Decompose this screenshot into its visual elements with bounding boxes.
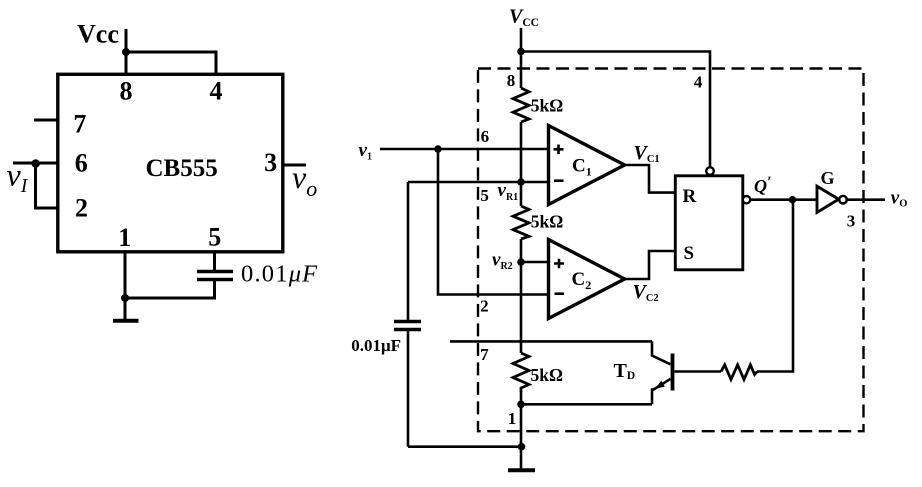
svg-text:G: G bbox=[820, 168, 834, 188]
svg-text:0.01μF: 0.01μF bbox=[351, 336, 401, 355]
wire C1 output to R input bbox=[625, 165, 676, 193]
svg-text:8: 8 bbox=[507, 71, 516, 90]
reset bubble on latch top bbox=[706, 167, 714, 175]
node ground junction bbox=[518, 443, 526, 451]
comparator C1 bbox=[549, 126, 625, 205]
svg-text:5: 5 bbox=[480, 186, 489, 205]
wire pin 7 discharge line to TD collector bbox=[450, 340, 652, 343]
ground (left circuit) bbox=[113, 298, 139, 321]
IC package CB555 box bbox=[58, 74, 283, 252]
Q' output bubble bbox=[743, 196, 750, 203]
svg-text:6: 6 bbox=[481, 127, 490, 146]
wire VCC to pin4 reset, down to latch bubble bbox=[521, 52, 710, 168]
node VCC junction bbox=[517, 48, 525, 56]
wire Q' to inverter G bbox=[750, 198, 817, 201]
comparator C2 bbox=[549, 240, 625, 319]
capacitor 0.01uF plates bbox=[197, 272, 233, 280]
wire chain R3 to ground bbox=[520, 392, 523, 447]
inverter G bbox=[817, 186, 847, 212]
wire Vcc lead to pin 8 bbox=[125, 29, 128, 74]
transistor TD bbox=[652, 341, 673, 404]
svg-text:4: 4 bbox=[210, 77, 223, 106]
wire C2 output to S input bbox=[625, 251, 676, 279]
svg-text:5kΩ: 5kΩ bbox=[531, 212, 564, 232]
svg-text:0.01μF: 0.01μF bbox=[241, 261, 318, 288]
resistor R3 5k bbox=[513, 353, 529, 392]
svg-text:R: R bbox=[683, 186, 697, 207]
wire TD base bbox=[675, 370, 722, 373]
svg-text:2: 2 bbox=[480, 297, 489, 316]
wire TD emitter to chain bottom bbox=[521, 403, 652, 406]
pin 6 stub bbox=[13, 162, 58, 165]
svg-text:7: 7 bbox=[73, 110, 86, 139]
svg-text:CB555: CB555 bbox=[145, 155, 217, 182]
svg-text:3: 3 bbox=[264, 148, 277, 177]
dashed IC boundary box bbox=[478, 69, 864, 432]
wire v1 to C1 + input bbox=[380, 148, 549, 151]
wire bottom return to ground node bbox=[408, 445, 521, 448]
capacitor 0.01uF (right circuit) bbox=[394, 182, 421, 447]
svg-text:Vcc: Vcc bbox=[77, 20, 119, 49]
pin 3 stub bbox=[283, 164, 306, 167]
wire chain R1 to R2 bbox=[520, 122, 523, 206]
pin 7 stub bbox=[34, 119, 58, 122]
resistor R1 5k bbox=[513, 88, 529, 122]
wire base resistor to Q' node bbox=[757, 200, 793, 372]
node vR2 bbox=[517, 258, 525, 266]
wire vR1 to C1 - input and to external cap bbox=[408, 181, 549, 184]
svg-text:8: 8 bbox=[120, 77, 133, 106]
svg-text:6: 6 bbox=[75, 149, 88, 178]
svg-text:1: 1 bbox=[118, 223, 131, 252]
node vR1 bbox=[517, 178, 525, 186]
resistor base Rb bbox=[721, 365, 757, 380]
wire chain R2 to R3 bbox=[520, 239, 523, 353]
node Vcc junction bbox=[122, 48, 130, 56]
svg-text:1: 1 bbox=[508, 409, 517, 428]
svg-text:7: 7 bbox=[480, 345, 489, 364]
ground (right circuit) bbox=[508, 447, 535, 471]
node pin1/cap junction bbox=[121, 294, 129, 302]
svg-text:5kΩ: 5kΩ bbox=[531, 365, 564, 385]
svg-text:3: 3 bbox=[847, 212, 856, 231]
svg-text:5kΩ: 5kΩ bbox=[531, 96, 564, 116]
node v1 junction bbox=[434, 145, 442, 153]
svg-text:S: S bbox=[684, 243, 695, 264]
svg-text:2: 2 bbox=[75, 194, 88, 223]
wire VCC lead bbox=[520, 28, 523, 88]
wire Vcc to pin 4 bbox=[126, 52, 216, 74]
svg-text:5: 5 bbox=[208, 223, 221, 252]
wire pin 5 to capacitor bbox=[213, 251, 216, 271]
wire v1 down to pin2 level bbox=[438, 149, 549, 295]
wire vR2 to C2 + input bbox=[521, 261, 549, 264]
wire pin 1 down bbox=[124, 251, 127, 298]
node emitter junction bbox=[517, 401, 525, 409]
wire G output to vo bbox=[847, 198, 885, 201]
node vI junction bbox=[31, 159, 40, 168]
SR latch box bbox=[675, 176, 743, 270]
wire capacitor bottom to pin 1 node bbox=[125, 281, 215, 298]
resistor R2 5k bbox=[513, 206, 529, 239]
wire pin 6 to pin 2 bbox=[36, 163, 59, 208]
svg-text:4: 4 bbox=[694, 72, 703, 91]
node Q' junction bbox=[789, 196, 796, 203]
